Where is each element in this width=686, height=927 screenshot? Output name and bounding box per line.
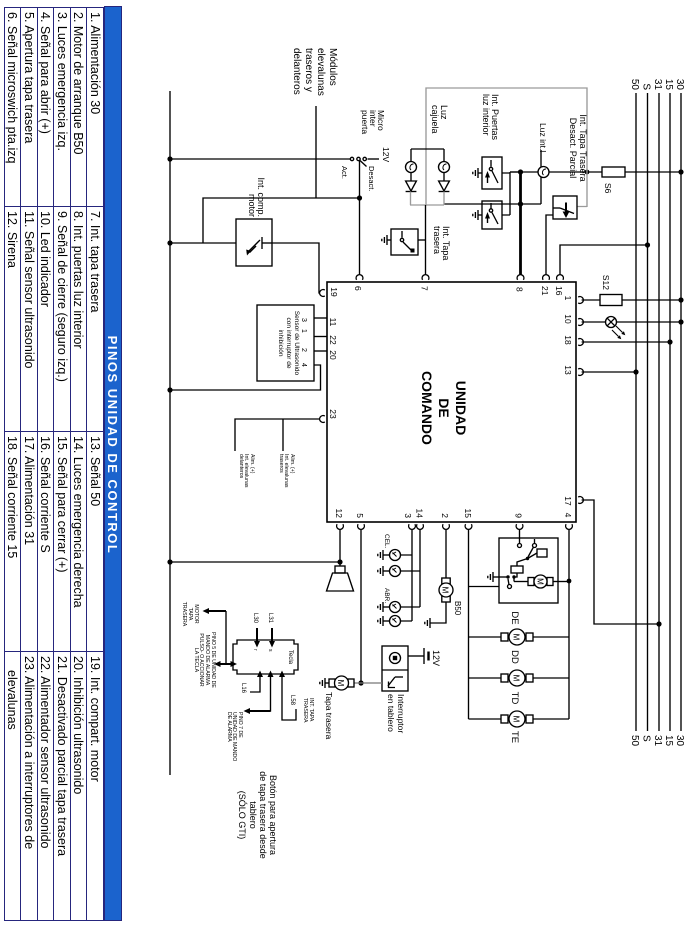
wire pin23 elevalunas feed (235, 416, 325, 451)
svg-text:L30: L30 (252, 613, 258, 624)
wire switch to tailgate motor (354, 682, 382, 684)
ground below tailgate motor (320, 678, 325, 688)
thick wire pin8 interior light switches (517, 171, 524, 280)
label PINO 7 alarm unit (225, 712, 242, 761)
svg-text:1: 1 (300, 329, 307, 333)
label engine compartment switch (247, 171, 265, 217)
wire pin15 door motor bottom rail (465, 524, 472, 719)
label 12V micro switch (382, 147, 391, 162)
ground below door switch 1 (473, 168, 482, 178)
pad pin L16 wire (240, 671, 263, 694)
driver door lock unit box (499, 538, 558, 603)
wire pin4 door motor top rail (566, 524, 573, 719)
svg-text:Tecla: Tecla (287, 650, 293, 665)
svg-text:r: r (252, 649, 258, 651)
wire pin10 to rail 30 (578, 319, 683, 326)
interior light lamp Luz int. (538, 150, 549, 204)
table header bar (104, 6, 122, 921)
svg-text:23: 23 (328, 409, 338, 419)
svg-text:50: 50 (629, 79, 640, 91)
tailgate switch Int. Tapa trasera (391, 229, 426, 255)
label tailgate motor (325, 692, 334, 739)
luggage lamp 2 (406, 149, 417, 181)
door switch 2 (482, 201, 502, 229)
pad pin alarm unit wire (244, 671, 274, 715)
power rail 50 (629, 79, 640, 747)
door lock motor TE (469, 711, 570, 727)
wire pin3 (401, 524, 416, 621)
door lock motor TD (469, 670, 570, 686)
label Act (341, 166, 349, 179)
sensor pin labels 3 1 2 4 (300, 318, 307, 367)
wire sensor pin4 to 12V bus (170, 365, 321, 390)
svg-text:17: 17 (563, 496, 573, 506)
lock microswitch connector 2 (378, 566, 401, 577)
ground below door switch 2 (473, 210, 482, 220)
label modules elevalunas (290, 48, 338, 96)
label motor tapa trasera (181, 597, 199, 631)
tailgate partial-deactivation switch (553, 196, 577, 219)
svg-text:8: 8 (515, 287, 525, 292)
wire pin1 to rail 30 (578, 297, 683, 304)
door light switches bus (502, 172, 521, 215)
wire pin7 tailgate switch (422, 205, 429, 280)
dashboard switch box (382, 646, 408, 691)
svg-text:30: 30 (674, 79, 685, 91)
svg-text:12V: 12V (431, 650, 441, 666)
power rail S (641, 83, 652, 742)
ultrasound sensor box (257, 305, 314, 381)
power rail 30 (674, 79, 685, 747)
wire pin16 to rail S (557, 242, 651, 279)
svg-text:10: 10 (563, 314, 573, 324)
wire pin2 starter B50 (443, 524, 450, 578)
svg-text:2: 2 (440, 513, 450, 518)
sensor pin stubs to pins 11 22 20 (314, 318, 327, 351)
wire modules elevalunas branch (170, 106, 360, 243)
svg-text:22: 22 (328, 335, 338, 345)
label Desact (368, 166, 376, 191)
label tailgate open button GTI (237, 765, 278, 865)
power rail 31 (652, 79, 663, 747)
lock unit lower contact (499, 577, 512, 589)
label Luz int (539, 123, 548, 152)
svg-text:31: 31 (652, 79, 663, 91)
svg-text:L58: L58 (289, 695, 295, 706)
svg-text:CEL.: CEL. (383, 534, 390, 549)
wire pad to tailgate motor label (203, 608, 227, 664)
wire micro switch down to 12V bus (170, 158, 350, 160)
svg-text:TE: TE (509, 731, 520, 743)
label tailgate partial deactivation (568, 103, 588, 193)
svg-text:6: 6 (353, 286, 363, 291)
starter motor B50 (439, 578, 462, 616)
label tailgate switch (432, 226, 450, 260)
label PINO 5 alarm unit (192, 629, 215, 691)
diode 2 (406, 181, 417, 205)
12V battery feed (408, 648, 441, 666)
svg-text:L16: L16 (240, 683, 246, 694)
svg-text:11: 11 (328, 318, 338, 327)
svg-text:20: 20 (328, 350, 338, 360)
alarm key pad Tecla (233, 640, 298, 674)
label micro door switch (360, 110, 385, 134)
svg-text:9: 9 (514, 513, 524, 518)
door lock motor DD (469, 629, 570, 645)
svg-text:M: M (512, 716, 521, 723)
wire lock unit to bottom rail (469, 586, 500, 588)
wire lamp to gray bus with junction (444, 201, 541, 206)
fuse S6 on wire from rail 30 (602, 167, 684, 194)
label luggage light (430, 105, 448, 134)
svg-text:S: S (641, 83, 652, 90)
ground below lock unit (488, 572, 499, 582)
svg-text:16: 16 (554, 286, 564, 296)
fuse S12 (600, 275, 622, 306)
wire pin6 micro switch (356, 161, 363, 280)
control unit main box U1 (327, 282, 576, 522)
wire pin12 siren (170, 524, 343, 566)
pad pin L58 wire (279, 671, 296, 721)
lock unit relay coil (528, 549, 548, 559)
svg-text:M: M (512, 634, 521, 641)
svg-text:15: 15 (663, 79, 674, 91)
power rail 15 (663, 79, 674, 747)
svg-text:B50: B50 (453, 601, 462, 616)
svg-text:3: 3 (403, 513, 413, 518)
wire pin14 (401, 524, 424, 607)
svg-text:7: 7 (420, 286, 430, 291)
LED indicator lamp (606, 317, 626, 340)
svg-text:31: 31 (652, 735, 663, 747)
lock microswitch connector 4 (378, 616, 401, 627)
wire pin19 to engine switch (272, 243, 325, 296)
svg-text:3: 3 (300, 318, 307, 322)
siren horn (327, 566, 354, 591)
svg-text:M: M (536, 578, 545, 585)
svg-text:ABR.: ABR. (383, 588, 390, 603)
label dashboard switch (386, 694, 405, 733)
svg-text:M: M (512, 675, 521, 682)
svg-text:30: 30 (674, 735, 685, 747)
wire S6 down to interior light (510, 169, 602, 174)
gray enclosure box (410, 88, 587, 207)
legend table PINOS UNIDAD DE CONTROL (4, 7, 121, 920)
table grid (4, 7, 104, 921)
ground below tailgate switch (382, 235, 391, 245)
svg-text:21: 21 (540, 286, 550, 296)
svg-text:DD: DD (509, 650, 520, 664)
svg-text:4: 4 (563, 513, 573, 518)
svg-text:12: 12 (334, 509, 344, 519)
luggage light bus (411, 148, 444, 150)
svg-text:19: 19 (329, 287, 339, 297)
svg-text:15: 15 (663, 735, 674, 747)
lock microswitch connector 1 (378, 550, 401, 561)
label door switches (481, 94, 499, 140)
svg-text:S6: S6 (603, 183, 613, 194)
luggage lamp 1 (439, 149, 450, 181)
arrow L31 into pad (267, 613, 275, 652)
wire pin21 to switch (543, 215, 553, 280)
wire pin13 to rail 50 (578, 369, 638, 376)
svg-text:1: 1 (563, 296, 573, 301)
title UNIDAD DE COMANDO (418, 348, 469, 468)
micro door switch 12V feed (350, 157, 379, 166)
svg-text:50: 50 (629, 735, 640, 747)
tailgate motor (325, 676, 354, 690)
wire pin9 to driver door lock (516, 524, 523, 543)
wire pin18 to rail 15 (578, 339, 672, 346)
lock unit motor (514, 575, 553, 588)
svg-text:S12: S12 (601, 275, 611, 290)
svg-text:5: 5 (355, 513, 365, 518)
pad bottom double arrow (214, 661, 237, 667)
lock unit resistor (506, 559, 527, 579)
wire B50 to ground (430, 602, 446, 623)
12V distribution bus wire (167, 91, 172, 775)
lock unit contacts (518, 539, 537, 560)
svg-text:DE: DE (509, 611, 520, 624)
svg-text:M: M (441, 587, 450, 594)
label ultrasound sensor (276, 305, 300, 381)
svg-text:S: S (641, 735, 652, 742)
wire pin17 to rail 31 (578, 497, 661, 627)
label INT TAPA TRASERA small (302, 698, 313, 723)
label elevalunas front feed (237, 454, 254, 487)
arrow L30 into pad (252, 613, 260, 651)
svg-text:4: 4 (300, 363, 307, 367)
lock microswitch connector 3 (378, 602, 401, 613)
svg-text:2: 2 (300, 348, 307, 352)
label elevalunas rear feed (277, 454, 294, 487)
svg-text:L31: L31 (267, 613, 273, 624)
svg-text:s: s (267, 649, 273, 652)
svg-text:14: 14 (415, 509, 425, 519)
wire lock unit to rail (553, 581, 569, 583)
diode 1 (439, 181, 450, 205)
engine compartment switch box (236, 219, 272, 266)
svg-text:13: 13 (563, 365, 573, 375)
svg-text:15: 15 (463, 509, 473, 519)
svg-text:TD: TD (509, 692, 520, 705)
svg-text:M: M (336, 680, 345, 687)
svg-text:18: 18 (563, 335, 573, 345)
ground B50 (425, 618, 430, 628)
door switch 1 (482, 157, 502, 189)
wire pin5 tailgate release (358, 524, 365, 685)
